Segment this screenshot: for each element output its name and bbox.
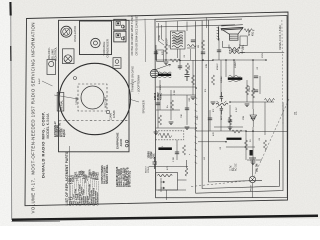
resistor R5 bbox=[211, 75, 214, 85]
oscillator coil L2 bbox=[156, 173, 178, 191]
capacitor C14 bbox=[228, 120, 232, 122]
resistor R13 bbox=[244, 140, 247, 150]
IF core bar 3 bbox=[158, 147, 172, 150]
ground G2 bbox=[191, 97, 196, 100]
junction node J4 bbox=[212, 59, 214, 61]
wire WV22 bbox=[264, 102, 266, 135]
ground G9 bbox=[251, 162, 256, 165]
vertical winding bbox=[185, 168, 187, 176]
wire WV16 bbox=[176, 140, 178, 160]
junction node J6 bbox=[233, 59, 235, 61]
bus line 3 bbox=[209, 20, 263, 182]
svg-text:6.3V: 6.3V bbox=[236, 107, 238, 112]
junction node J2 bbox=[179, 60, 181, 62]
trimmer box 1 bbox=[114, 19, 126, 30]
capacitor C11 bbox=[156, 103, 160, 105]
page frame bbox=[25, 12, 288, 206]
capacitor C16 bbox=[254, 90, 258, 92]
speaker bbox=[221, 27, 243, 30]
wire WV25 bbox=[166, 190, 168, 200]
svg-text:35W4: 35W4 bbox=[249, 86, 251, 92]
svg-text:3.3M: 3.3M bbox=[174, 90, 176, 95]
ground G5 bbox=[154, 132, 159, 135]
capacitor C17 bbox=[175, 152, 179, 154]
capacitor C6 bbox=[154, 52, 158, 54]
scan edge left bbox=[11, 2, 12, 220]
capacitor C12 bbox=[185, 108, 189, 110]
variable condenser box bbox=[80, 21, 112, 55]
wire WV17 bbox=[186, 95, 188, 125]
wire WH10 bbox=[160, 94, 196, 96]
inner solid circle bbox=[81, 86, 104, 109]
wire WH3 bbox=[213, 59, 266, 61]
speaker terminal strip bbox=[218, 27, 220, 41]
svg-text:OSC: OSC bbox=[153, 153, 156, 158]
capacitor C13 bbox=[208, 118, 212, 120]
wire WV10 bbox=[252, 60, 254, 109]
B- bus line 2 bbox=[202, 21, 279, 189]
schematic border box bbox=[155, 16, 287, 198]
svg-text:45Ω: 45Ω bbox=[252, 31, 254, 36]
capacitor C5 bbox=[185, 70, 190, 81]
svg-text:12BA6: 12BA6 bbox=[220, 76, 223, 83]
rectifier V5 35W4 bbox=[250, 115, 257, 121]
wire WV24 bbox=[157, 95, 159, 128]
B- bus line 1 bbox=[196, 21, 283, 193]
resistor R16 bbox=[232, 130, 242, 133]
resistor R12 bbox=[263, 140, 266, 150]
terminal strip rect bbox=[157, 50, 164, 62]
coil arrows bbox=[161, 181, 165, 183]
wire WV18 bbox=[209, 110, 211, 131]
wire WV7 bbox=[225, 60, 227, 77]
ground G1 bbox=[164, 62, 169, 65]
ground G4 bbox=[245, 104, 250, 107]
scan edge bottom thick rule bbox=[12, 216, 318, 220]
svg-text:1M: 1M bbox=[198, 45, 200, 48]
wire WV11 bbox=[259, 76, 261, 94]
output core bar bbox=[227, 138, 242, 140]
ground G6 bbox=[169, 122, 174, 125]
svg-text:PILOT: PILOT bbox=[251, 184, 253, 191]
svg-text:100V: 100V bbox=[160, 84, 162, 90]
pilot down wire bbox=[252, 183, 254, 198]
svg-text:SPKR: SPKR bbox=[249, 29, 251, 36]
resistor R8 bbox=[182, 145, 185, 155]
ground G7 bbox=[185, 127, 190, 130]
resistor R10 bbox=[158, 115, 161, 125]
resistor R1 bbox=[164, 44, 167, 54]
wire WV4 bbox=[179, 49, 181, 70]
wire WV23 bbox=[160, 178, 162, 192]
wire WV6 bbox=[218, 38, 220, 60]
grommet circles bbox=[106, 110, 109, 113]
wire WH5 bbox=[230, 101, 274, 103]
svg-text:12AV6: 12AV6 bbox=[234, 61, 237, 68]
IF core bar 1 bbox=[158, 74, 171, 76]
junction node J8 bbox=[265, 59, 267, 61]
capacitor C7 bbox=[178, 66, 182, 68]
wire WH2 bbox=[180, 60, 213, 62]
svg-text:IF AMP: IF AMP bbox=[157, 92, 160, 100]
resistor R4 bbox=[201, 40, 204, 50]
chassis dashed line bbox=[59, 119, 129, 122]
aerial label box bbox=[57, 93, 64, 112]
svg-text:AC-DC: AC-DC bbox=[235, 163, 238, 171]
junction node J9 bbox=[195, 87, 197, 89]
rail corner stub bbox=[206, 17, 208, 28]
junction node J5 bbox=[225, 59, 227, 61]
junction node J14 bbox=[252, 130, 254, 132]
dial circle speaker top view bbox=[59, 63, 130, 134]
capacitor C8 bbox=[201, 52, 205, 54]
capacitor C10 bbox=[251, 117, 255, 119]
wire WV21 bbox=[252, 127, 254, 160]
svg-text:DEWALD CO. K-544A: DEWALD CO. K-544A bbox=[279, 25, 282, 50]
fold dashed line bbox=[282, 20, 283, 125]
wire WH16 bbox=[158, 189, 186, 191]
svg-text:12BA6: 12BA6 bbox=[154, 92, 157, 100]
pilot bracket box bbox=[113, 58, 121, 69]
svg-text:220K: 220K bbox=[159, 34, 161, 40]
svg-text:21: 21 bbox=[294, 111, 298, 115]
junction node J7 bbox=[252, 59, 254, 61]
tube V3 dashed envelope bbox=[155, 131, 184, 140]
svg-text:455KC: 455KC bbox=[217, 63, 219, 70]
wire WV13 bbox=[220, 109, 222, 131]
output trans terminal box bbox=[240, 36, 247, 46]
chassis outline box bbox=[59, 20, 130, 152]
ground G8 bbox=[228, 127, 233, 130]
output transformer T3 bbox=[229, 48, 240, 50]
earphone jack symbol bbox=[126, 140, 129, 143]
svg-text:47K: 47K bbox=[162, 51, 164, 55]
dial shaft tick marks bbox=[195, 97, 198, 99]
wire WV8 bbox=[233, 60, 235, 77]
junction node J13 bbox=[225, 141, 227, 143]
svg-text:25M: 25M bbox=[243, 116, 245, 120]
wire WV5 bbox=[192, 60, 194, 95]
wire WH14 bbox=[226, 146, 255, 148]
wire WH8 bbox=[196, 130, 246, 132]
svg-text:220K: 220K bbox=[189, 64, 191, 70]
capacitor C9 bbox=[217, 50, 221, 52]
svg-text:70K: 70K bbox=[181, 114, 183, 118]
junction node J11 bbox=[195, 127, 197, 129]
tube V1 12BE6 bbox=[150, 70, 158, 78]
junction node J10 bbox=[229, 101, 231, 103]
wire WV20 bbox=[245, 131, 247, 160]
svg-text:OSC: OSC bbox=[197, 115, 199, 120]
osc coil wire bbox=[178, 160, 187, 180]
wire WV3 bbox=[155, 45, 157, 60]
wire WH1 bbox=[156, 59, 180, 61]
tuning arrow bbox=[154, 64, 171, 70]
wire WH6 bbox=[156, 109, 180, 111]
svg-text:SW. ON: SW. ON bbox=[257, 163, 259, 172]
resistor R3 bbox=[191, 75, 194, 85]
resistor R15 bbox=[170, 59, 180, 62]
wire WH13 bbox=[198, 141, 226, 143]
wire WV2 bbox=[186, 22, 188, 32]
svg-text:AVC: AVC bbox=[220, 115, 223, 120]
schematic inner border line top-left bbox=[144, 19, 147, 62]
wire WH4 bbox=[156, 86, 196, 88]
capacitor C18 bbox=[191, 40, 195, 42]
oscillator tube shield bbox=[61, 26, 72, 37]
wire WH12 bbox=[149, 166, 188, 168]
svg-text:150V: 150V bbox=[262, 52, 264, 58]
wire WV19 bbox=[229, 105, 231, 131]
IF transformer T1 bbox=[171, 31, 186, 49]
resistor R11 bbox=[228, 115, 231, 125]
wire WH9 bbox=[246, 131, 287, 133]
resistor R7 bbox=[251, 88, 254, 98]
junction node J3 bbox=[202, 59, 204, 61]
junction node J1 bbox=[165, 59, 167, 61]
wire WV15 bbox=[170, 90, 172, 120]
resistor R14 bbox=[265, 98, 275, 101]
svg-text:10M: 10M bbox=[206, 64, 208, 68]
wire WH7 bbox=[156, 127, 196, 129]
dashed square bbox=[78, 84, 107, 111]
svg-text:47K: 47K bbox=[213, 132, 215, 136]
junction node J12 bbox=[245, 130, 247, 132]
resistor R2 bbox=[185, 63, 188, 73]
tube socket 2 box bbox=[63, 49, 75, 64]
volume pot box bbox=[47, 60, 56, 75]
wire WH17 bbox=[247, 159, 262, 161]
pilot lamp bbox=[249, 176, 255, 182]
wire WV9 bbox=[246, 80, 248, 102]
B+ rail 2 bbox=[156, 25, 235, 27]
chassis to schematic wire bbox=[129, 19, 155, 22]
trimmer box 2 bbox=[114, 31, 126, 42]
coupling coil L3 bbox=[187, 45, 196, 47]
power switch cluster bbox=[250, 150, 253, 156]
wire WV14 bbox=[159, 80, 161, 110]
B+ rail top bbox=[156, 19, 242, 21]
svg-text:50C5: 50C5 bbox=[243, 44, 245, 50]
wire WH11 bbox=[214, 126, 243, 128]
ground G3 bbox=[211, 102, 216, 105]
resistor R6 bbox=[245, 85, 248, 95]
wire WV1 bbox=[165, 22, 167, 61]
svg-text:COND: COND bbox=[148, 166, 150, 173]
scan edge left dark segment top bbox=[9, 2, 11, 16]
resistor R9 bbox=[170, 100, 173, 110]
svg-text:2.2M: 2.2M bbox=[173, 157, 175, 162]
wire WH15 bbox=[240, 52, 284, 54]
label leader lines bbox=[129, 81, 139, 102]
coil junction cluster bbox=[216, 103, 228, 105]
IF core bar 2 bbox=[228, 77, 243, 80]
dial cord dashed line bbox=[253, 99, 290, 180]
scan edge left dark segment 2 bbox=[10, 46, 12, 61]
capacitor C15 bbox=[254, 76, 258, 78]
loop antenna coil bbox=[159, 23, 162, 41]
aerial leader line bbox=[54, 95, 78, 99]
wire WV12 bbox=[220, 60, 222, 99]
field resistor bbox=[244, 29, 254, 32]
